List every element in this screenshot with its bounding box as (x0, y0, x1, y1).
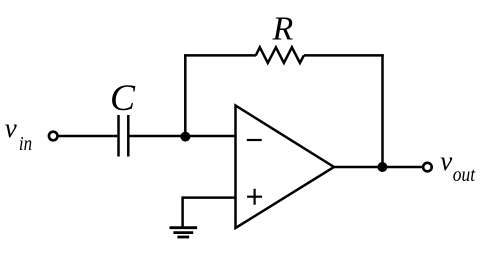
svg-text:v: v (440, 146, 452, 176)
svg-text:out: out (453, 164, 476, 186)
svg-text:C: C (110, 78, 136, 119)
svg-text:in: in (19, 133, 32, 155)
svg-text:R: R (272, 10, 294, 47)
svg-text:v: v (5, 113, 17, 143)
